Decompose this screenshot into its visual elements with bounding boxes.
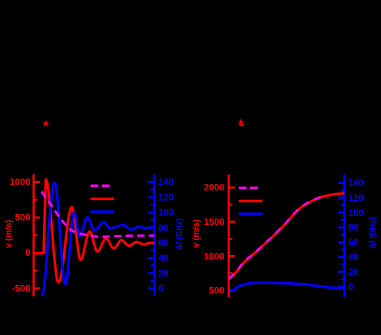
svg-text:60: 60 (348, 237, 358, 247)
right blue minor ticks (341, 189, 345, 191)
svg-text:2000: 2000 (204, 183, 225, 193)
left legend red sample (91, 198, 115, 201)
left blue minor ticks (151, 189, 155, 191)
right red minor ticks (229, 204, 233, 206)
left legend blue sample (91, 210, 115, 213)
svg-text:140: 140 (158, 177, 174, 187)
left red major ticks (34, 181, 40, 183)
svg-text:20: 20 (158, 268, 168, 278)
svg-text:1000: 1000 (204, 251, 225, 261)
right red major ticks (229, 187, 235, 189)
right blue y-axis spine (343, 175, 345, 298)
left blue y-axis spine (153, 174, 155, 296)
svg-text:0: 0 (25, 248, 30, 258)
left red minor ticks (34, 199, 38, 201)
svg-text:120: 120 (158, 192, 174, 202)
svg-text:100: 100 (158, 208, 174, 218)
right blue major ticks (338, 182, 344, 184)
left chart blue frequency curve (42, 183, 155, 297)
fault star marker (right diagram) (238, 119, 245, 126)
svg-text:0: 0 (158, 284, 163, 294)
svg-text:40: 40 (348, 252, 358, 262)
svg-text:500: 500 (15, 213, 31, 223)
fault star marker (left diagram) (42, 120, 49, 127)
svg-text:1000: 1000 (10, 177, 31, 187)
svg-text:60: 60 (158, 238, 168, 248)
svg-text:100: 100 (348, 208, 364, 218)
svg-text:Δf (GHz): Δf (GHz) (369, 217, 378, 249)
svg-text:Δf (GHz): Δf (GHz) (175, 218, 184, 250)
svg-text:1500: 1500 (204, 217, 225, 227)
left blue major ticks (148, 181, 154, 183)
svg-text:v (m/s): v (m/s) (4, 220, 14, 248)
right chart red y-axis spine (228, 175, 230, 298)
left legend dashed magenta sample (91, 184, 111, 187)
right chart red velocity curve (229, 194, 344, 280)
svg-text:140: 140 (348, 178, 364, 188)
svg-text:80: 80 (348, 223, 358, 233)
right legend dashed magenta sample (239, 187, 259, 190)
svg-text:80: 80 (158, 223, 168, 233)
left chart magenta dashed expected curve (42, 192, 155, 237)
right chart magenta dashed expected curve (229, 197, 321, 279)
svg-text:v (m/s): v (m/s) (191, 219, 201, 247)
right legend blue sample (239, 212, 263, 215)
svg-text:0: 0 (348, 282, 353, 292)
svg-text:500: 500 (209, 286, 225, 296)
right legend red sample (239, 200, 263, 203)
svg-text:20: 20 (348, 267, 358, 277)
left red y-axis spine (32, 174, 34, 296)
svg-text:40: 40 (158, 253, 168, 263)
svg-text:120: 120 (348, 193, 364, 203)
left chart red velocity curve (34, 180, 155, 283)
svg-text:-500: -500 (12, 284, 31, 294)
right chart blue frequency curve (230, 283, 345, 292)
